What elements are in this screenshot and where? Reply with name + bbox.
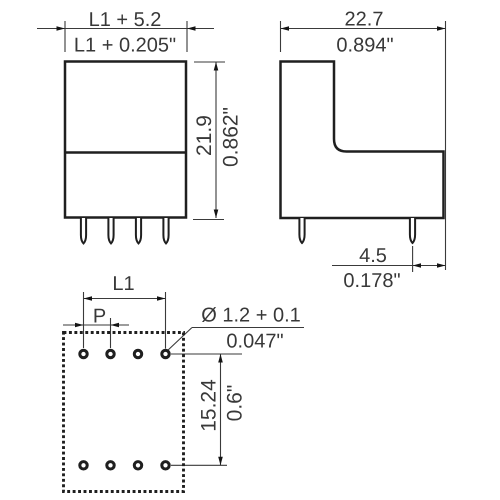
- front view: vertical dimension 21.9: [193, 62, 225, 220]
- svg-text:15.24: 15.24: [198, 379, 221, 432]
- footprint: dashed board outline: [64, 333, 184, 492]
- footprint: leader line to hole diameter: [167, 328, 305, 352]
- front view: dimension line L1+5.2: [37, 21, 214, 52]
- front view: pin 2: [108, 218, 113, 243]
- side view: dimension line 22.7: [281, 21, 446, 270]
- svg-text:0.894": 0.894": [336, 35, 393, 57]
- svg-text:0.6": 0.6": [224, 385, 247, 422]
- svg-text:L1 + 0.205": L1 + 0.205": [74, 35, 176, 57]
- front view: housing divider line: [65, 151, 186, 154]
- footprint: dimension P (pitch): [63, 318, 129, 348]
- svg-text:22.7: 22.7: [345, 9, 384, 31]
- svg-text:0.862": 0.862": [220, 107, 243, 167]
- side view: pin right: [410, 218, 415, 243]
- svg-text:P: P: [93, 306, 106, 328]
- footprint: hole row 2 pad 2: [107, 462, 114, 469]
- svg-text:L1 + 5.2: L1 + 5.2: [89, 9, 162, 31]
- svg-text:0.047": 0.047": [226, 331, 283, 353]
- front view: pin 4: [163, 218, 168, 243]
- footprint: hole row 2 pad 4: [162, 462, 169, 469]
- svg-text:4.5: 4.5: [359, 245, 387, 267]
- footprint: dimension L1: [84, 292, 166, 349]
- front view: pin 3: [136, 218, 141, 243]
- footprint: hole row 1 pad 2: [107, 350, 114, 357]
- front view: connector body outline: [65, 62, 186, 218]
- side view: pin left: [299, 218, 304, 243]
- svg-text:0.178": 0.178": [343, 270, 400, 292]
- footprint: hole row 1 pad 4: [162, 350, 169, 357]
- footprint: dimension 15.24: [171, 354, 242, 465]
- front view: pin 1: [81, 218, 86, 243]
- footprint: hole row 1 pad 1: [80, 350, 87, 357]
- footprint: hole row 2 pad 3: [134, 462, 141, 469]
- svg-text:L1: L1: [112, 273, 134, 295]
- footprint: hole row 2 pad 1: [80, 462, 87, 469]
- svg-text:Ø 1.2 + 0.1: Ø 1.2 + 0.1: [201, 305, 301, 327]
- side view: L-shaped body outline: [281, 62, 444, 219]
- svg-text:21.9: 21.9: [193, 115, 216, 156]
- side view: dimension 4.5: [332, 246, 446, 272]
- footprint: hole row 1 pad 3: [134, 350, 141, 357]
